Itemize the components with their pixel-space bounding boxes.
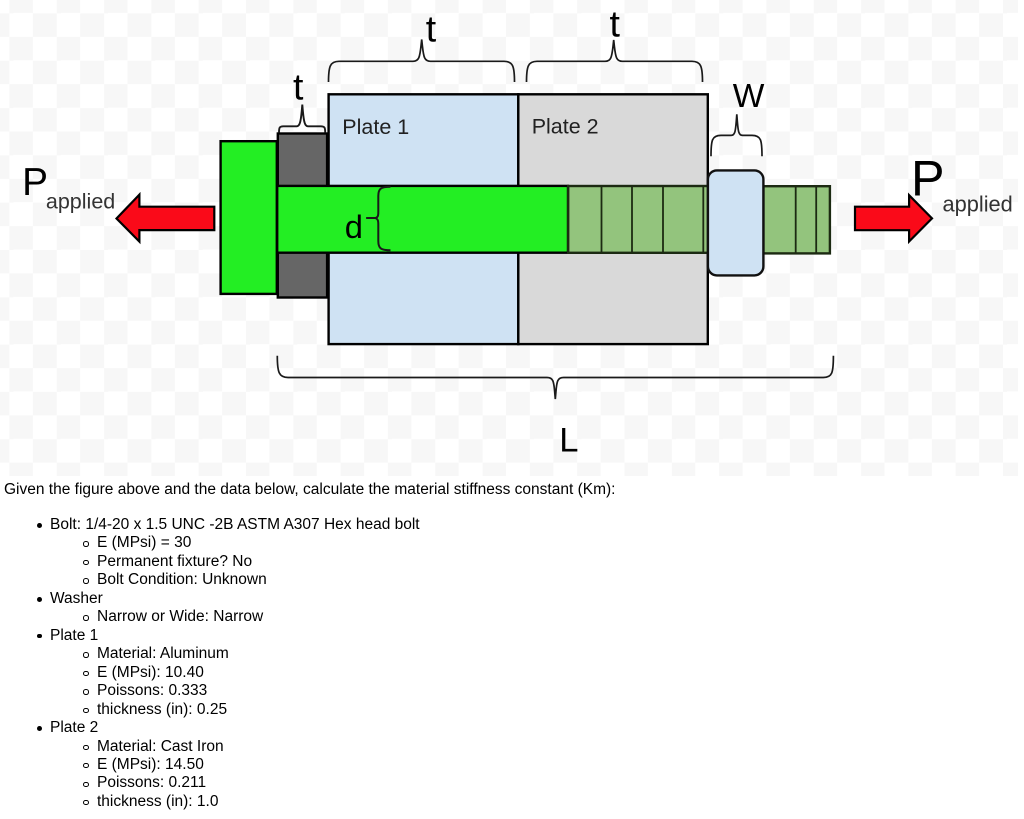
svg-text:applied: applied: [46, 190, 115, 214]
plate P2 (Plate 2, gray): [518, 94, 708, 344]
svg-text:W: W: [733, 78, 765, 115]
checkered transparency background: [0, 0, 1018, 476]
svg-text:t: t: [293, 66, 304, 108]
brace t over plate 2: [527, 40, 703, 82]
bolt thread section right: [763, 186, 830, 253]
svg-text:L: L: [559, 421, 578, 459]
bolt head (bright green): [221, 141, 277, 294]
bolt shank (bright green): [277, 186, 568, 253]
arrow left (red, applied force): [117, 195, 215, 242]
washer (dark gray): [278, 134, 327, 298]
bolt thread section left: [568, 186, 708, 253]
nut (light blue rounded): [708, 170, 764, 275]
brace L bottom: [277, 356, 833, 399]
brace W over nut: [711, 114, 762, 156]
svg-text:P: P: [22, 161, 48, 204]
plate P1 (Plate 1, light blue): [329, 94, 519, 344]
arrow right (red, applied force): [855, 195, 932, 241]
svg-text:t: t: [610, 2, 621, 44]
svg-text:Plate 2: Plate 2: [532, 115, 599, 139]
data bullet list: [0, 516, 420, 812]
svg-text:Plate 1: Plate 1: [342, 115, 409, 139]
brace d (diameter): [366, 217, 376, 219]
brace t over plate 1: [329, 40, 515, 83]
brace t over washer: [279, 105, 325, 133]
svg-text:P: P: [911, 150, 945, 207]
svg-text:applied: applied: [943, 191, 1013, 216]
svg-text:t: t: [426, 8, 437, 50]
question text: [4, 481, 615, 499]
svg-text:d: d: [345, 208, 363, 245]
